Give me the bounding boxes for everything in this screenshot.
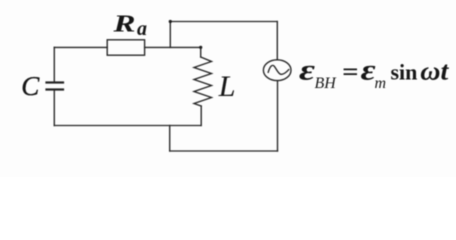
wire: lower bottom rail to source <box>170 150 278 152</box>
svg-text:BH: BH <box>315 75 338 92</box>
inductor L: top lead <box>200 47 202 57</box>
svg-text:L: L <box>218 70 236 103</box>
wire: step-down vertical on bottom rail <box>169 126 171 152</box>
inductor L: bottom lead <box>200 106 202 126</box>
wire: top-left horizontal from capacitor branch to resistor <box>54 46 107 48</box>
wire: source bottom lead <box>277 81 279 151</box>
wire: source top lead <box>276 22 278 60</box>
svg-text:m: m <box>375 75 387 92</box>
svg-text:a: a <box>137 18 147 40</box>
svg-text:ε: ε <box>299 54 316 87</box>
node B: junction dot at inductor top corner <box>199 46 202 49</box>
resistor Ra: rectangle body <box>107 40 144 55</box>
wire: bottom rail of left loop <box>54 125 201 127</box>
wire: top rail to source <box>170 21 277 23</box>
wire: left vertical upper segment (to capacitor top plate) <box>53 47 55 82</box>
svg-text:ωt: ωt <box>420 57 449 86</box>
inductor L: zigzag body <box>194 57 212 106</box>
wire: left vertical lower segment (from capacitor bottom plate) <box>53 90 55 126</box>
node A: junction dot at top rail <box>169 20 172 23</box>
wire: junction riser to top rail <box>169 22 171 48</box>
svg-text:sin: sin <box>391 60 418 85</box>
wire: resistor right lead <box>145 46 201 48</box>
capacitor C: top plate <box>47 81 64 83</box>
svg-text:C: C <box>21 71 40 101</box>
svg-text:R: R <box>112 10 135 37</box>
capacitor C: bottom plate <box>47 88 64 90</box>
svg-text:=: = <box>342 60 359 86</box>
AC source: circle <box>263 60 291 81</box>
AC source: sine squiggle <box>268 65 289 74</box>
